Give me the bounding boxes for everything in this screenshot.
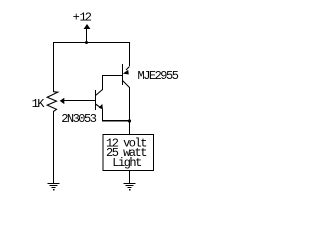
transistor Q2 MJE2955 (122, 64, 130, 88)
resistor R1 1K (potentiometer body) (47, 92, 58, 112)
wire resistor down to ground (53, 111, 54, 183)
lamp box 12V 25W (103, 135, 153, 171)
ground symbol right (123, 183, 135, 191)
svg-text:2N3053: 2N3053 (61, 112, 97, 126)
wire Q2 collector down to lamp (129, 87, 130, 134)
label 12 volt 25 watt Light (106, 136, 146, 170)
transistor Q1 2N3053 (95, 90, 103, 111)
junction dot collector-emitter node (128, 119, 131, 122)
wiper arrow into resistor (60, 98, 95, 104)
wire Q1 emitter down and right to junction (102, 109, 130, 122)
wire rail down to Q2 emitter (129, 42, 130, 66)
+12 supply arrow (84, 24, 91, 42)
wire lamp to ground (129, 170, 130, 183)
svg-text:Light: Light (112, 156, 141, 170)
svg-text:MJE2955: MJE2955 (138, 69, 179, 83)
ground symbol left (47, 183, 59, 191)
wire top +12 rail (53, 42, 130, 43)
svg-text:12: 12 (80, 11, 92, 25)
wire rail down to resistor (53, 42, 54, 92)
wire Q1 collector up to Q2 base (102, 75, 123, 90)
junction dot on +12 rail (85, 41, 88, 44)
